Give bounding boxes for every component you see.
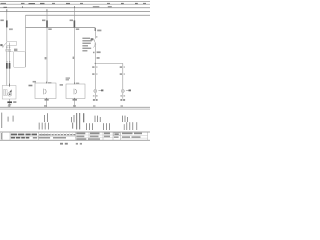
overload F4 pole a	[6, 63, 8, 69]
rail PE	[0, 108, 150, 110]
wire U1 down	[46, 99, 48, 108]
label K1	[14, 49, 17, 51]
rail tag motor	[8, 105, 11, 106]
revision cells	[42, 133, 73, 136]
divider right	[147, 132, 149, 140]
rail N	[0, 106, 150, 108]
rail tag lamp1	[93, 105, 96, 106]
lamp2 terminal text	[120, 95, 122, 96]
box U1	[35, 83, 56, 99]
rotated text left margin	[1, 133, 2, 140]
annotation arrow	[93, 43, 95, 47]
link line to K box	[9, 51, 14, 53]
company subtitle text	[11, 137, 15, 139]
label M1	[13, 101, 16, 103]
rail X1	[26, 27, 96, 29]
lamp H1 label arrow	[98, 89, 101, 91]
bottom tag U1	[45, 99, 49, 101]
rail tag U1	[44, 105, 47, 106]
column labels top strip	[1, 3, 147, 5]
lamp1 lower wire	[94, 93, 96, 99]
bus L1	[0, 7, 150, 9]
control branch S1	[94, 28, 96, 39]
rail tag U2	[73, 105, 76, 106]
symbol inside U1	[44, 89, 47, 95]
revision text row	[39, 134, 41, 135]
contact boxes K1	[6, 49, 8, 51]
lamp H1	[94, 89, 97, 92]
divider 89	[88, 132, 90, 140]
contact chevrons	[6, 47, 7, 48]
lamp H2	[121, 89, 124, 92]
label F3	[70, 20, 73, 22]
bus tag above L1 at 96	[93, 6, 100, 7]
company title text	[11, 134, 17, 136]
wire U2 down	[74, 99, 76, 108]
lamp1 terminal text	[93, 95, 95, 96]
divider 113	[112, 132, 114, 140]
frame top line 1	[0, 0, 150, 2]
label left U2	[60, 84, 63, 86]
motor down wire	[9, 99, 11, 107]
terminal tag F2 rail	[48, 28, 51, 30]
symbol inside U2	[74, 89, 77, 95]
label U1	[33, 81, 36, 83]
wire phase a	[6, 46, 8, 86]
bus label L1 left	[4, 7, 8, 8]
contact K1 on branch1	[92, 66, 94, 68]
bus L3	[26, 14, 151, 16]
rail tag lamp2	[121, 105, 124, 106]
arrow mark	[29, 85, 33, 87]
lamp2 lower wire	[122, 93, 124, 99]
bottom tag U2	[73, 99, 78, 101]
divider 120.5	[120, 132, 122, 140]
tap tick F2	[46, 9, 49, 11]
divider 103	[102, 132, 104, 140]
switch Q1 blade	[3, 43, 7, 47]
wire tag columns below rails	[1, 113, 128, 128]
note text block	[82, 38, 91, 52]
tick above L1 at 22	[21, 6, 24, 8]
box U2	[66, 84, 85, 99]
divider 10	[9, 132, 11, 140]
branch wire to lamp2	[95, 64, 123, 90]
terminal mark branch top	[95, 28, 96, 31]
label F1	[0, 20, 3, 22]
wire F2 drop	[46, 12, 48, 84]
right cell texts	[76, 135, 148, 138]
mid line	[10, 135, 76, 137]
A3 box	[114, 133, 120, 136]
switch S1 label	[91, 38, 94, 40]
bus tag above L1 at 109	[108, 6, 112, 7]
box K1 enclosure	[13, 52, 25, 68]
label above U2	[66, 78, 70, 79]
title bottom border	[0, 139, 150, 141]
wire F3 drop	[73, 8, 75, 84]
disconnect Q1 box	[7, 41, 16, 45]
bus L2	[0, 11, 150, 13]
lamp H2 label arrow	[126, 89, 129, 91]
title top border	[0, 131, 150, 133]
shield bar	[7, 101, 12, 103]
wire below switch	[94, 45, 96, 90]
branch labels mid	[93, 52, 95, 54]
motor box	[2, 86, 16, 100]
fuse F1	[6, 20, 8, 27]
names text row	[39, 137, 51, 139]
fuse F3	[74, 20, 76, 27]
value label F1	[9, 28, 13, 30]
title block	[0, 132, 150, 140]
filter rect a	[4, 90, 6, 96]
contact K2 on branch2	[120, 66, 122, 68]
divider left margin	[2, 132, 4, 140]
frame top line 2	[0, 3, 150, 5]
switch S1 blade	[94, 39, 96, 44]
lamp2 PE dashes	[120, 99, 122, 101]
terminal tag F3 rail	[76, 28, 79, 30]
wire number F2 mid	[45, 57, 47, 59]
ground marks	[8, 103, 11, 106]
junction dot	[95, 63, 96, 64]
label F2	[42, 20, 45, 22]
entry tag U1	[48, 82, 51, 83]
divider 75.5	[75, 132, 77, 140]
footer page labels	[60, 143, 82, 145]
dark triangle	[9, 89, 11, 92]
filter rect b	[6, 90, 8, 96]
wire L3 corner drop	[25, 15, 27, 67]
overload F4 pole b	[9, 63, 11, 69]
tick above switch S1	[96, 36, 97, 37]
tap tick F3	[73, 6, 76, 8]
tag columns above title block	[39, 113, 138, 130]
entry tag U2	[76, 83, 79, 84]
wire phase b	[9, 43, 11, 86]
lamp1 PE dashes	[93, 99, 95, 101]
fuse F2	[46, 20, 48, 27]
light text row1	[40, 134, 49, 136]
wire number F3 mid	[73, 57, 75, 59]
overload ticks	[6, 61, 7, 62]
label X1	[97, 30, 101, 32]
tap tick F1	[6, 9, 9, 11]
motor circle	[8, 92, 12, 96]
wire F1 drop	[6, 12, 8, 42]
label Q1	[0, 44, 2, 46]
